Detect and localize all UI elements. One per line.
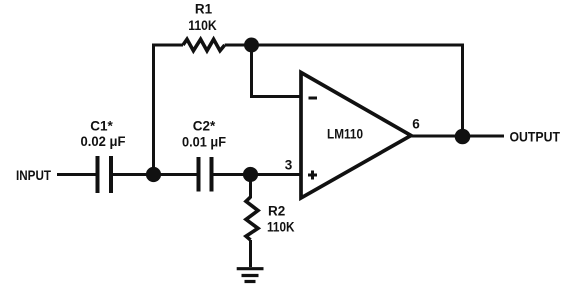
svg-text:110K: 110K: [188, 18, 217, 33]
wire input to C1: [57, 173, 96, 176]
svg-text:0.02 μF: 0.02 μF: [81, 134, 126, 149]
feedback vertical wire node A up: [152, 44, 155, 175]
minus sign: [309, 97, 318, 100]
svg-text:LM110: LM110: [327, 127, 363, 142]
plus sign: [308, 171, 317, 180]
wire C2 to node B: [214, 173, 249, 176]
wire node B down to R2: [249, 177, 252, 198]
wire node B to op-amp pin 3: [253, 173, 301, 176]
capacitor C1: [98, 156, 112, 193]
op-amp U1 triangle: [301, 73, 411, 199]
svg-text:OUTPUT: OUTPUT: [510, 129, 561, 145]
svg-text:3: 3: [285, 158, 293, 173]
svg-text:C1*: C1*: [90, 119, 113, 134]
wire node A to C2: [156, 173, 197, 176]
svg-text:0.01 μF: 0.01 μF: [182, 135, 226, 150]
top wire right segment: [254, 44, 463, 47]
wire R2 to ground: [249, 240, 252, 267]
svg-text:C2*: C2*: [193, 119, 216, 134]
ground symbol: [237, 269, 264, 282]
svg-text:R1: R1: [195, 2, 213, 17]
resistor R1 zigzag: [183, 39, 225, 50]
wire C1 to node A: [113, 173, 150, 176]
svg-text:6: 6: [412, 117, 420, 132]
svg-text:INPUT: INPUT: [16, 167, 51, 183]
capacitor C2: [199, 157, 212, 192]
wire node D down to inverting input: [252, 47, 302, 97]
node C junction dot: [455, 129, 471, 145]
svg-text:110K: 110K: [267, 220, 295, 235]
resistor R2 zigzag: [246, 197, 258, 240]
node B junction dot: [243, 167, 258, 182]
node D junction dot: [244, 38, 259, 53]
wire R1 to node D: [225, 44, 248, 47]
node A junction dot: [146, 167, 161, 182]
top wire left segment: [152, 44, 183, 47]
wire down right side to node C: [461, 44, 464, 135]
svg-text:R2: R2: [268, 204, 285, 219]
output wire apex to node C: [411, 135, 459, 138]
wire node C to OUTPUT: [465, 135, 504, 138]
